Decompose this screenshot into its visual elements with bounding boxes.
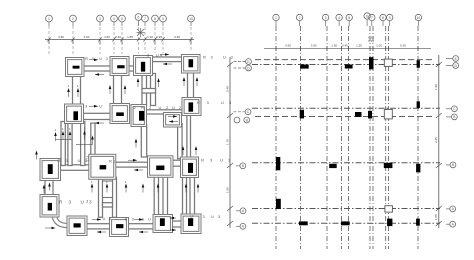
up arrows below F beams (92, 186, 126, 193)
grid bubbles top row (left plan) (46, 14, 195, 22)
arrow on beam A2-B2 right (89, 105, 98, 107)
left dim rotated labels (226, 86, 230, 193)
footing G3 (153, 215, 173, 233)
svg-text:U: U (81, 200, 84, 205)
hollow column row D (384, 59, 392, 66)
beam below A1 (73, 75, 81, 107)
short dashed grid drops (left plan) (49, 26, 191, 54)
up arrows below B1 (110, 87, 125, 94)
beam below A2 left pair (61, 122, 65, 166)
column A1 (73, 66, 80, 69)
arrow on beam C1-D1 left (163, 63, 172, 65)
beam below B1 (114, 74, 122, 106)
svg-text:U: U (223, 55, 226, 60)
beam G3-G4 (171, 221, 184, 227)
svg-text:U: U (211, 214, 214, 219)
label R3 U3 row4 (59, 200, 92, 205)
svg-text:1.85: 1.85 (127, 35, 133, 39)
arrow on beam G2-G3 right (134, 219, 143, 221)
svg-text:U: U (99, 104, 102, 109)
svg-text:R: R (85, 56, 88, 61)
arrow on beam A1-B1 right (89, 59, 98, 61)
tie lines below A2 (56, 140, 93, 145)
hollow column row C (384, 109, 392, 119)
svg-text:3.50: 3.50 (58, 35, 64, 39)
svg-text:0.95: 0.95 (156, 35, 162, 39)
column G3 (160, 218, 165, 226)
curved beam from E2 to G1 (arc) (52, 216, 67, 228)
svg-text:5: 5 (348, 16, 350, 20)
svg-text:9: 9 (389, 16, 391, 20)
footing C3 (148, 156, 174, 178)
svg-text:1.90: 1.90 (434, 84, 438, 90)
beam below F right (113, 177, 117, 217)
column B2 (116, 112, 124, 116)
arrow between G3-G4 (170, 217, 176, 219)
beam below H1 (178, 124, 183, 159)
horizontal row line dashed (row C) (255, 116, 432, 118)
beam A2 edge down (81, 122, 85, 166)
footing C2 (131, 105, 147, 127)
svg-text:U: U (99, 56, 102, 61)
column F (100, 165, 107, 169)
footing E1 (40, 159, 61, 181)
svg-text:5.36: 5.36 (400, 44, 406, 48)
up arrow left of E1 (36, 153, 38, 160)
pit H1 hollow rect (164, 113, 182, 128)
footing C1 (134, 56, 153, 76)
beam below C1 (ladder left) (142, 74, 147, 106)
beam C2-D2 (145, 110, 184, 114)
right side bubbles (right plan rows) (450, 56, 459, 228)
beam G2-G3 (127, 224, 156, 229)
svg-text:3.36: 3.36 (174, 35, 180, 39)
beam E1-F (59, 165, 91, 171)
svg-text:2: 2 (299, 16, 301, 20)
svg-text:3.60: 3.60 (285, 44, 291, 48)
beam below D2 (187, 114, 191, 159)
columns black row A2 (276, 199, 281, 209)
column C2 (139, 111, 144, 121)
svg-text:1.70: 1.70 (226, 139, 230, 145)
right dim rotated labels (434, 84, 438, 220)
svg-text:0.60: 0.60 (115, 35, 121, 39)
columns black row A (299, 219, 420, 227)
arrow on beam C1-D1 right (160, 54, 169, 56)
column C1 (141, 62, 145, 72)
svg-text:4.50: 4.50 (104, 35, 110, 39)
column C3 (156, 166, 164, 171)
dimension values (right plan top) (285, 36, 406, 48)
column E2 (48, 203, 52, 211)
svg-text:U: U (103, 216, 106, 221)
beam below D1 (188, 71, 194, 99)
footing A1 (66, 58, 85, 77)
svg-text:9: 9 (162, 17, 164, 21)
horizontal row line dash-dot (row A2) (252, 208, 440, 210)
svg-text:4: 4 (338, 16, 340, 20)
up arrow in E1 beam (49, 185, 51, 191)
svg-text:1.05: 1.05 (376, 44, 382, 48)
beam C3-D3 (171, 160, 182, 166)
bubble numbers (left plan top) (48, 15, 193, 21)
right side bubble letters (452, 57, 458, 227)
up arrows below D2 (183, 148, 196, 155)
up arrows beside C1 ladder (138, 80, 159, 87)
svg-text:U 4: U 4 (156, 53, 163, 58)
up arrow left of E2 (43, 187, 45, 194)
dimension values (left plan top) (58, 35, 180, 39)
arrow on beam A2-B2 left (95, 122, 104, 124)
columns black row B (276, 157, 420, 172)
column B1 (117, 65, 124, 68)
svg-text:0.45: 0.45 (342, 44, 348, 48)
svg-text:4: 4 (113, 17, 115, 21)
svg-text:0.15: 0.15 (368, 36, 374, 40)
column D1 (189, 59, 194, 67)
svg-text:U: U (159, 105, 162, 110)
svg-text:5: 5 (121, 17, 123, 21)
vertical grid lines dash-dot (right plan) (276, 26, 418, 249)
beam below F left (99, 177, 103, 217)
pit below F (103, 181, 113, 198)
arrow on beam F-C3 right (128, 159, 137, 161)
svg-text:U: U (148, 217, 151, 222)
footing G1 (67, 216, 87, 236)
column D2 (189, 102, 194, 111)
columns black row D (300, 57, 420, 69)
beam A2-B2 (82, 113, 113, 119)
svg-text:R: R (197, 100, 200, 105)
svg-text:3: 3 (99, 17, 101, 21)
horizontal row line dash-dot (row C upper) (252, 107, 440, 109)
svg-text:1: 1 (275, 16, 277, 20)
beam C1-D1 (151, 57, 184, 62)
svg-text:6: 6 (366, 14, 368, 18)
starburst dim cluster (137, 28, 145, 37)
footing F (R1 large) (89, 154, 116, 179)
svg-text:U: U (221, 100, 224, 105)
arrow on beam F-C3 left (134, 169, 143, 171)
left vertical dimension line (right plan) (229, 57, 231, 228)
svg-text:1.30: 1.30 (147, 35, 153, 39)
arrow near arc (45, 227, 54, 229)
footing D3 (181, 157, 199, 178)
column G4 (188, 218, 193, 226)
beam G1-G2 (85, 224, 112, 229)
beam below D3 right (190, 176, 195, 217)
left side bubble leaders (234, 62, 246, 227)
svg-text:U: U (220, 158, 223, 163)
horizontal row line dash-dot (row A) (252, 222, 440, 224)
footing B2 (110, 104, 130, 124)
up arrows below A1 (69, 90, 79, 97)
horizontal row line dashed (row D upper) (255, 59, 432, 61)
svg-text:10: 10 (417, 16, 421, 20)
beam toward F top (91, 123, 95, 155)
hollow column row A2 (385, 206, 393, 212)
ladder rung C1 (142, 89, 156, 94)
top dimension line (right plan) (264, 46, 431, 51)
arrow on beam G1-G2 left (97, 231, 106, 233)
svg-text:3.55: 3.55 (311, 44, 317, 48)
svg-text:8: 8 (382, 16, 384, 20)
svg-text:3.15: 3.15 (85, 155, 89, 161)
footing G2 (110, 218, 129, 237)
right vertical dimension line (right plan) (438, 55, 440, 228)
svg-text:R: R (203, 55, 206, 60)
svg-text:2.45: 2.45 (434, 137, 438, 143)
svg-text:3: 3 (89, 200, 92, 205)
up arrow right tie (92, 138, 94, 145)
beam below C1 (ladder right) (151, 74, 156, 106)
svg-text:R: R (141, 105, 144, 110)
columns black row C (300, 101, 420, 118)
up arrows below D3 (186, 186, 198, 193)
svg-text:2: 2 (72, 17, 74, 21)
bubble stems (right plan) (276, 19, 418, 26)
arrow on beam G2-G3 left (139, 231, 148, 233)
footing D1 (182, 55, 201, 74)
svg-text:U: U (78, 158, 81, 163)
rung below F (103, 203, 113, 207)
svg-text:3.50: 3.50 (84, 35, 90, 39)
arrow on beam A1-B1 left (95, 74, 104, 76)
svg-text:R: R (201, 158, 204, 163)
horizontal row line dash-dot (row B) (252, 162, 440, 164)
footing D2 (182, 98, 201, 116)
svg-text:7: 7 (371, 16, 373, 20)
column E1 (48, 164, 53, 174)
beam below C2 (141, 125, 146, 157)
svg-text:1: 1 (48, 17, 50, 21)
svg-text:8: 8 (154, 17, 156, 21)
footing B1 (110, 57, 129, 76)
grid bubbles top row (right plan) (273, 13, 422, 21)
beam below A2 right (68, 122, 72, 166)
up arrows below C3 (143, 186, 158, 193)
column G1 (74, 223, 81, 227)
svg-text:3: 3 (69, 200, 72, 205)
left side bubbles (right plan rows) (234, 59, 251, 230)
svg-text:5.48: 5.48 (226, 86, 230, 92)
up arrows below D1 (184, 79, 197, 86)
up arrows below A2 cluster (56, 133, 85, 142)
svg-text:7: 7 (144, 17, 146, 21)
arrows inside H1 (168, 116, 177, 118)
arrow on beam G1-G2 right (92, 219, 101, 221)
right side bubble leaders (446, 59, 453, 225)
svg-text:1.05: 1.05 (434, 214, 438, 220)
right dim ticks (436, 62, 442, 226)
svg-text:6: 6 (138, 15, 140, 19)
footing A2 (65, 104, 84, 124)
bubble numbers (right plan top) (275, 14, 420, 20)
beam below D3 left (183, 176, 187, 217)
bubble stems (left plan) (49, 20, 191, 26)
svg-text:U: U (190, 214, 193, 219)
beam A1-B1 (82, 66, 112, 71)
beam below C3 right (163, 175, 168, 216)
svg-text:1.05: 1.05 (226, 187, 230, 193)
left dim ticks (227, 62, 233, 226)
up arrow below C2 (135, 141, 137, 148)
beam F-C3 (114, 162, 150, 167)
top dimension line (left plan) (45, 38, 194, 45)
beam B1-C1 (127, 66, 136, 71)
column D3 (188, 163, 193, 173)
left side bubble letters (242, 60, 251, 229)
beam below E1 (45, 179, 53, 197)
svg-text:U: U (172, 105, 175, 110)
horizontal row line dash-dot (row D) (252, 64, 440, 66)
column A2 (73, 111, 78, 120)
beam below C3 left (154, 175, 158, 216)
svg-text:R 1: R 1 (109, 159, 116, 164)
svg-text:3: 3 (325, 16, 327, 20)
footing E2 (40, 195, 59, 218)
svg-text:R: R (58, 158, 61, 163)
svg-text:R: R (125, 217, 128, 222)
svg-text:1.50: 1.50 (331, 44, 337, 48)
footing G4 (181, 214, 201, 234)
svg-text:1.55: 1.55 (356, 44, 362, 48)
column G2 (116, 224, 123, 228)
svg-text:10: 10 (189, 17, 193, 21)
